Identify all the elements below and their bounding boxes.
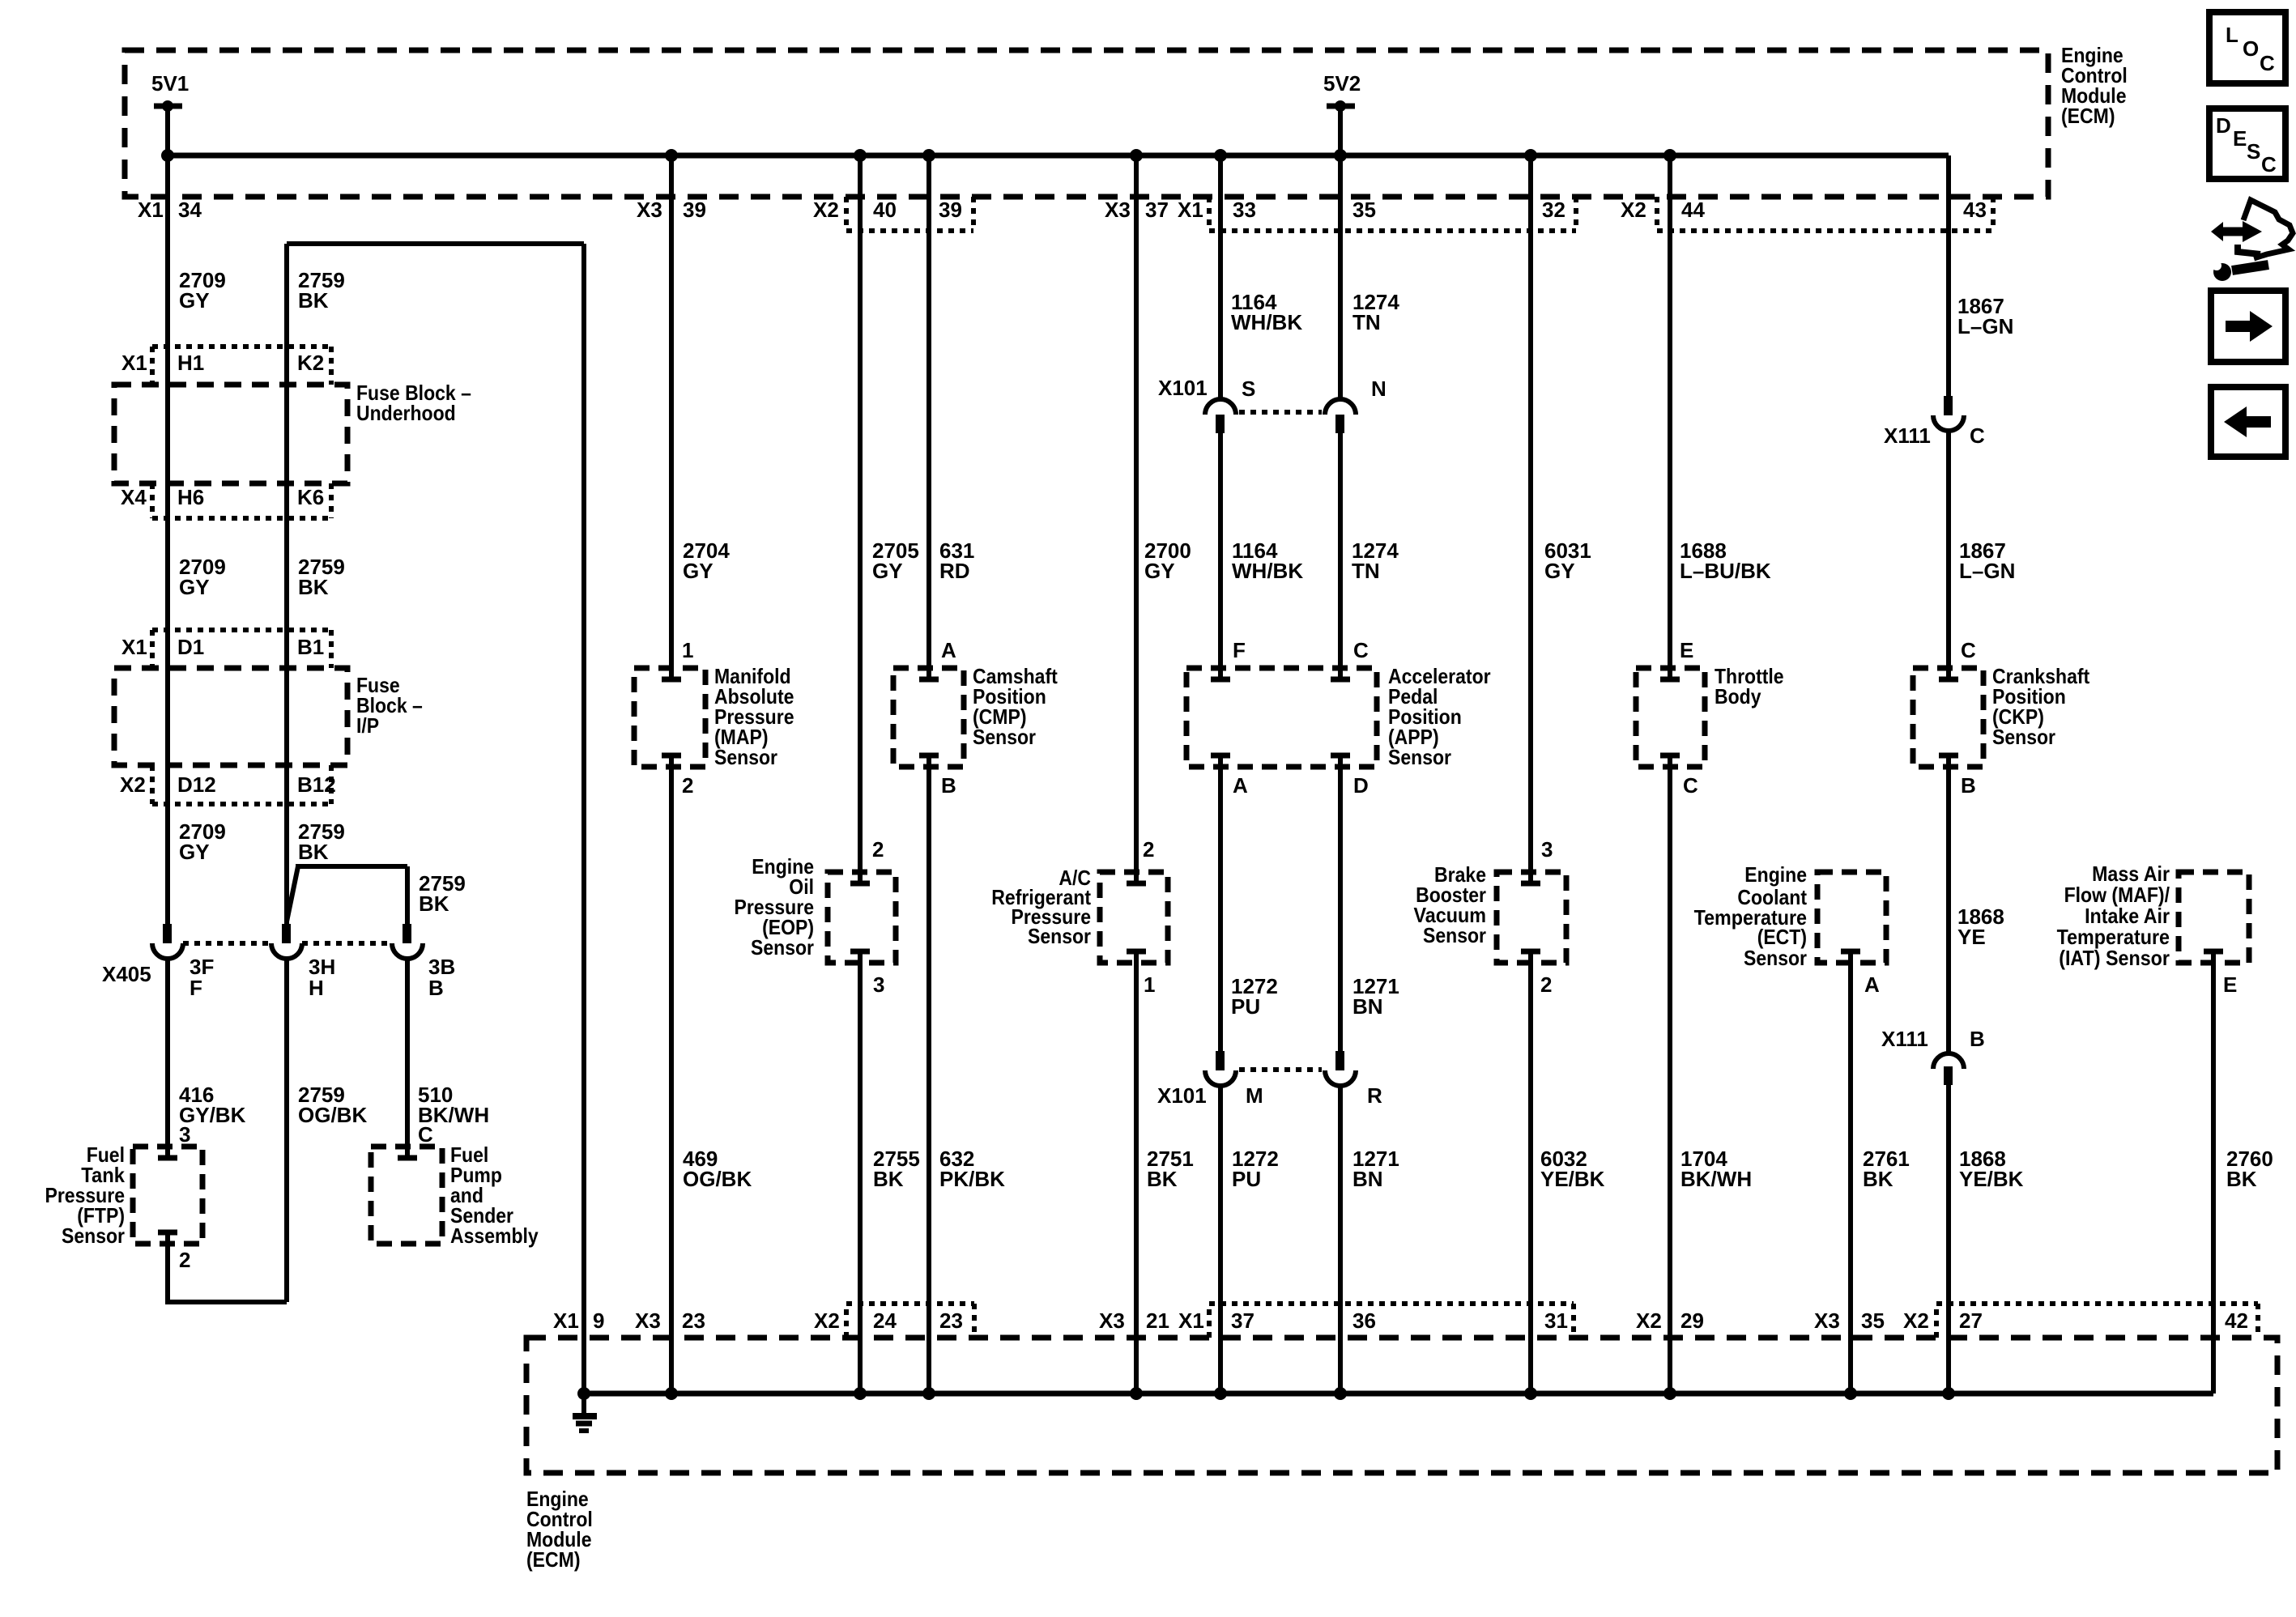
throttle body name <box>1715 664 1784 709</box>
sensor MAP box <box>634 668 705 767</box>
ECM bottom pin labels <box>553 1308 2248 1333</box>
svg-text:N: N <box>1371 377 1387 401</box>
svg-text:23: 23 <box>682 1308 705 1333</box>
sensor ECT name <box>1694 862 1808 970</box>
svg-text:Engine: Engine <box>1744 862 1807 887</box>
wire 2760 BK MAF return <box>2211 951 2216 1394</box>
sensor MAF IAT box <box>2179 872 2249 963</box>
svg-text:BK/WH: BK/WH <box>1680 1167 1752 1191</box>
svg-text:GY: GY <box>1544 559 1575 583</box>
svg-text:C: C <box>2260 51 2275 75</box>
svg-text:X101: X101 <box>1157 1083 1207 1108</box>
connector X101 S-N dotted link <box>1239 410 1322 415</box>
svg-text:43: 43 <box>1963 198 1987 222</box>
svg-text:27: 27 <box>1959 1308 1983 1333</box>
svg-text:D12: D12 <box>177 772 216 797</box>
ECM top pin boxes dotted <box>846 197 973 231</box>
svg-text:GY: GY <box>179 840 210 864</box>
svg-text:C: C <box>1970 423 1985 448</box>
svg-text:X3: X3 <box>1099 1308 1125 1333</box>
connector X101 M-R dotted link <box>1239 1067 1322 1072</box>
svg-text:BK: BK <box>1863 1167 1893 1191</box>
wire 1704 BK/WH throttle C <box>1668 755 1672 1394</box>
splice connector X405 H <box>271 924 302 959</box>
sensor APP name <box>1388 664 1491 769</box>
wire 1868 YE CKP return <box>1946 755 1951 1394</box>
svg-text:PK/BK: PK/BK <box>939 1167 1005 1191</box>
svg-text:A: A <box>1864 972 1880 997</box>
wire 2751 BK A/C return <box>1134 951 1139 1394</box>
sensor ECT box <box>1817 872 1886 963</box>
svg-text:X111: X111 <box>1881 1027 1928 1051</box>
icon LOC box <box>2209 12 2285 83</box>
svg-text:C: C <box>1683 773 1698 798</box>
svg-text:L–BU/BK: L–BU/BK <box>1680 559 1771 583</box>
svg-text:O: O <box>2243 36 2259 61</box>
junction dots bottom bus <box>577 1387 1955 1400</box>
wire 1274 TN APP C column <box>1338 155 1343 679</box>
svg-text:1: 1 <box>682 638 693 662</box>
fuse block IP name <box>356 673 423 738</box>
fuel pump name <box>450 1143 539 1248</box>
svg-text:R: R <box>1367 1083 1382 1108</box>
ECM bottom dashed box <box>526 1338 2277 1473</box>
svg-text:WH/BK: WH/BK <box>1232 559 1303 583</box>
wire ground bus bottom <box>584 1391 2213 1397</box>
svg-text:F: F <box>190 976 202 1000</box>
ECM bottom name label <box>526 1487 593 1572</box>
pin T-bars at sensor boxes <box>158 679 2223 1232</box>
svg-text:B: B <box>1961 773 1976 798</box>
icon DESC box <box>2209 109 2285 179</box>
ECM top pin labels <box>138 198 1987 222</box>
svg-text:H1: H1 <box>177 351 204 375</box>
svg-text:RD: RD <box>939 559 970 583</box>
fuel pump box <box>371 1147 442 1244</box>
wire 1272 PU APP A column <box>1218 755 1223 1394</box>
wire 2761 BK ECT return <box>1848 951 1853 1394</box>
svg-text:21: 21 <box>1146 1308 1169 1333</box>
svg-text:H: H <box>309 976 324 1000</box>
svg-text:44: 44 <box>1681 198 1705 222</box>
svg-text:PU: PU <box>1231 994 1260 1019</box>
wire 2759 BK branch to fuel pump <box>287 866 407 924</box>
wire 2709 GY X1-34 column <box>165 155 170 924</box>
svg-text:2: 2 <box>1540 972 1552 997</box>
svg-text:GY: GY <box>179 575 210 599</box>
wire 2759 BK long vertical to ground <box>581 244 586 1394</box>
sensor FTP box <box>133 1147 202 1244</box>
svg-text:24: 24 <box>873 1308 897 1333</box>
connector X111 B <box>1933 1053 1964 1085</box>
svg-text:X2: X2 <box>1903 1308 1929 1333</box>
svg-text:BN: BN <box>1352 994 1383 1019</box>
wire 416 GY/BK to FTP pin3 <box>165 959 170 1158</box>
svg-text:35: 35 <box>1352 198 1376 222</box>
svg-text:PU: PU <box>1232 1167 1261 1191</box>
svg-text:36: 36 <box>1352 1308 1376 1333</box>
svg-text:Sensor: Sensor <box>1423 923 1486 947</box>
connector X101 R <box>1325 1051 1356 1086</box>
svg-text:Sensor: Sensor <box>1744 946 1807 970</box>
svg-text:BK: BK <box>2226 1167 2257 1191</box>
svg-text:5V1: 5V1 <box>151 71 189 96</box>
svg-text:C: C <box>1353 638 1369 662</box>
connector X111 C <box>1933 396 1964 431</box>
svg-text:(ECM): (ECM) <box>2061 104 2115 128</box>
svg-text:(IAT) Sensor: (IAT) Sensor <box>2059 946 2170 970</box>
fuse block I/P box <box>114 668 347 765</box>
splice connector X405 B <box>392 924 423 959</box>
wire FTP pin2 return loop <box>168 959 287 1302</box>
svg-text:BK: BK <box>298 840 329 864</box>
icon left arrow box <box>2211 387 2285 457</box>
connector X101 M <box>1205 1051 1236 1086</box>
svg-text:X2: X2 <box>1636 1308 1662 1333</box>
svg-text:X3: X3 <box>1814 1308 1840 1333</box>
svg-text:Sensor: Sensor <box>714 745 777 769</box>
svg-text:3: 3 <box>1541 837 1553 862</box>
svg-text:X1: X1 <box>121 351 147 375</box>
svg-text:Sensor: Sensor <box>1992 725 2055 749</box>
wire 1271 BN APP D column <box>1338 755 1343 1394</box>
svg-text:D: D <box>1353 773 1369 798</box>
sensor EOP name <box>735 854 815 960</box>
sensor APP box <box>1186 668 1377 767</box>
svg-text:GY: GY <box>683 559 714 583</box>
svg-text:Sensor: Sensor <box>751 935 814 960</box>
wire 469 OG/BK MAP return <box>669 755 674 1394</box>
wire 2700 GY A/C pressure signal <box>1134 155 1139 883</box>
svg-text:X4: X4 <box>121 485 147 509</box>
wire 1164 WH/BK APP F column <box>1218 155 1223 679</box>
wire 5V bus top <box>168 153 1949 159</box>
wire 2704 GY MAP signal <box>669 155 674 679</box>
wire 6032 YE/BK brake booster return <box>1528 951 1533 1394</box>
svg-text:X2: X2 <box>120 772 146 797</box>
svg-text:F: F <box>1233 638 1246 662</box>
sensor EOP box <box>828 872 896 963</box>
svg-text:B: B <box>1970 1027 1985 1051</box>
svg-text:OG/BK: OG/BK <box>298 1103 367 1127</box>
svg-text:TN: TN <box>1352 559 1380 583</box>
svg-text:X1: X1 <box>553 1308 579 1333</box>
svg-text:X111: X111 <box>1884 423 1931 448</box>
svg-text:K6: K6 <box>297 485 324 509</box>
wire 2705 GY EOP signal <box>858 155 863 883</box>
svg-text:Underhood: Underhood <box>356 401 456 425</box>
svg-text:C: C <box>2261 152 2277 177</box>
svg-text:A: A <box>1233 773 1248 798</box>
svg-text:BK: BK <box>298 288 329 313</box>
svg-text:D1: D1 <box>177 635 204 659</box>
svg-text:31: 31 <box>1544 1308 1568 1333</box>
connector X101 S <box>1205 399 1236 433</box>
svg-text:S: S <box>2247 139 2260 164</box>
svg-text:BN: BN <box>1352 1167 1383 1191</box>
svg-text:B12: B12 <box>297 772 336 797</box>
svg-text:33: 33 <box>1233 198 1256 222</box>
icon hand with arrows and wrench <box>2211 200 2293 281</box>
svg-text:I/P: I/P <box>356 713 379 738</box>
fuse block I/P pin row X2 D12 B12 <box>152 765 331 804</box>
svg-text:34: 34 <box>178 198 202 222</box>
fuse block underhood name <box>356 381 471 425</box>
icon right arrow box <box>2211 291 2285 362</box>
sensor CMP name <box>973 664 1058 749</box>
wire 2759 BK return top run <box>287 244 584 924</box>
svg-text:2: 2 <box>872 837 884 862</box>
sensor MAP name <box>714 664 794 769</box>
svg-text:K2: K2 <box>297 351 324 375</box>
fuse block underhood pin row X4 H6 K6 <box>152 483 331 518</box>
sensor CMP box <box>893 668 964 767</box>
svg-text:BK: BK <box>1147 1167 1178 1191</box>
wire 6031 GY brake booster signal <box>1528 155 1533 883</box>
svg-text:35: 35 <box>1861 1308 1885 1333</box>
ECM top name label <box>2061 43 2128 128</box>
svg-text:X3: X3 <box>635 1308 661 1333</box>
svg-text:X405: X405 <box>102 962 151 986</box>
svg-text:X1: X1 <box>1178 198 1203 222</box>
svg-text:Sensor: Sensor <box>1028 924 1091 948</box>
svg-text:YE: YE <box>1957 925 1986 949</box>
svg-text:B1: B1 <box>297 635 324 659</box>
sensor AC refrigerant box <box>1100 872 1168 963</box>
svg-text:2: 2 <box>179 1248 190 1272</box>
svg-text:E: E <box>1680 638 1693 662</box>
svg-text:40: 40 <box>873 198 897 222</box>
svg-text:X3: X3 <box>637 198 662 222</box>
svg-text:2: 2 <box>682 773 693 798</box>
svg-text:B: B <box>428 976 444 1000</box>
node 5V1 terminal <box>154 100 182 155</box>
svg-text:A: A <box>941 638 956 662</box>
svg-text:C: C <box>418 1122 433 1147</box>
fuse block underhood box <box>114 385 347 483</box>
svg-text:X101: X101 <box>1158 376 1208 400</box>
svg-text:X2: X2 <box>814 1308 840 1333</box>
svg-text:GY: GY <box>872 559 903 583</box>
svg-text:C: C <box>1961 638 1976 662</box>
svg-text:TN: TN <box>1352 310 1381 334</box>
svg-text:3: 3 <box>179 1122 190 1147</box>
svg-text:E: E <box>2223 972 2237 997</box>
svg-text:29: 29 <box>1680 1308 1704 1333</box>
splice connector X405 F <box>152 924 183 959</box>
sensor FTP name <box>45 1143 126 1248</box>
svg-text:X1: X1 <box>1178 1308 1204 1333</box>
sensor CKP name <box>1992 664 2089 749</box>
svg-text:X1: X1 <box>121 635 147 659</box>
svg-text:X2: X2 <box>813 198 839 222</box>
svg-text:D: D <box>2216 113 2231 138</box>
sensor AC refrigerant name <box>991 866 1091 948</box>
node 5V2 terminal <box>1327 100 1355 155</box>
svg-text:BK: BK <box>419 891 449 916</box>
svg-text:BK: BK <box>298 575 329 599</box>
svg-text:L–GN: L–GN <box>1957 314 2013 338</box>
svg-text:OG/BK: OG/BK <box>683 1167 752 1191</box>
svg-text:39: 39 <box>683 198 706 222</box>
svg-text:M: M <box>1246 1083 1263 1108</box>
svg-text:Sensor: Sensor <box>973 725 1036 749</box>
svg-text:39: 39 <box>939 198 962 222</box>
fuse block underhood pin row X1 H1 K2 <box>152 347 331 385</box>
svg-text:3: 3 <box>873 972 884 997</box>
svg-text:23: 23 <box>939 1308 963 1333</box>
svg-text:GY: GY <box>1144 559 1175 583</box>
svg-text:E: E <box>2233 126 2247 151</box>
wire 1867 L-GN CKP feed <box>1946 155 1951 679</box>
wire 632 PK/BK CMP return <box>926 755 931 1394</box>
svg-text:(ECM): (ECM) <box>526 1547 581 1572</box>
junction dots top bus <box>161 149 1676 162</box>
svg-text:B: B <box>941 773 956 798</box>
svg-text:BK: BK <box>873 1167 904 1191</box>
wire 2755 BK EOP return <box>858 951 863 1394</box>
svg-text:YE/BK: YE/BK <box>1959 1167 2024 1191</box>
svg-text:9: 9 <box>593 1308 604 1333</box>
svg-text:X1: X1 <box>138 198 164 222</box>
connector X101 N <box>1325 399 1356 433</box>
fuse block I/P pin row X1 D1 B1 <box>152 630 331 668</box>
svg-text:S: S <box>1242 377 1255 401</box>
svg-text:2: 2 <box>1143 837 1154 862</box>
svg-text:37: 37 <box>1231 1308 1254 1333</box>
ground <box>573 1394 597 1431</box>
connector X405 dotted link <box>183 941 392 946</box>
svg-text:37: 37 <box>1145 198 1169 222</box>
svg-text:GY: GY <box>179 288 210 313</box>
svg-text:WH/BK: WH/BK <box>1231 310 1302 334</box>
wire 510 BK/WH fuel pump C <box>405 959 410 1158</box>
svg-text:Assembly: Assembly <box>450 1223 539 1248</box>
sensor brake booster box <box>1497 872 1566 963</box>
svg-text:5V2: 5V2 <box>1323 71 1361 96</box>
ECM top dashed box <box>125 50 2048 197</box>
throttle body box <box>1636 668 1705 767</box>
svg-text:32: 32 <box>1542 198 1565 222</box>
svg-text:Body: Body <box>1715 684 1761 709</box>
svg-text:Sensor: Sensor <box>62 1223 125 1248</box>
wire 631 RD CMP feed <box>926 155 931 679</box>
sensor CKP box <box>1913 668 1983 767</box>
svg-text:Sensor: Sensor <box>1388 745 1451 769</box>
wire 1688 L-BU/BK throttle E <box>1668 155 1672 679</box>
ECM bottom pin boxes dotted <box>846 1304 974 1338</box>
svg-text:L–GN: L–GN <box>1959 559 2015 583</box>
svg-text:1: 1 <box>1144 972 1155 997</box>
svg-text:H6: H6 <box>177 485 204 509</box>
svg-text:X3: X3 <box>1105 198 1131 222</box>
svg-text:L: L <box>2226 23 2238 47</box>
svg-text:42: 42 <box>2225 1308 2248 1333</box>
svg-text:X2: X2 <box>1621 198 1646 222</box>
sensor brake booster name <box>1414 862 1487 947</box>
svg-text:YE/BK: YE/BK <box>1540 1167 1605 1191</box>
sensor MAF IAT name <box>2057 862 2170 970</box>
